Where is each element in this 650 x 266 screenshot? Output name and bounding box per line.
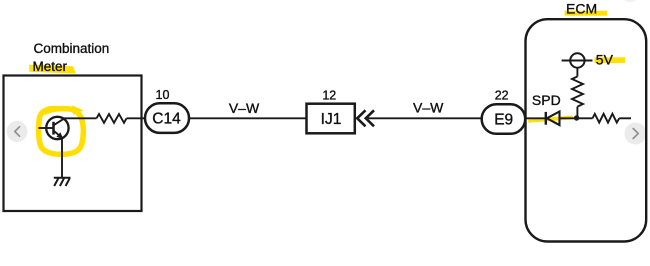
svg-text:22: 22: [495, 89, 509, 103]
connector chevrons at IJ1: [357, 110, 374, 126]
node junction dot: [574, 115, 579, 120]
diode D1 (SPD): [545, 112, 547, 125]
junction connector IJ1: [307, 104, 355, 134]
svg-text:C14: C14: [152, 111, 181, 128]
transistor emitter arrowhead: [56, 132, 63, 139]
ground: [54, 178, 71, 186]
highlight ring around transistor: [39, 108, 84, 154]
connector E9: [482, 104, 526, 134]
wire node to resistor R3: [577, 117, 593, 119]
highlight under Meter label: [29, 65, 76, 74]
wire resistor to node: [576, 107, 578, 119]
combination meter box: [4, 76, 142, 212]
nav prev button: [7, 121, 28, 142]
nav next button: [625, 123, 647, 145]
wire 5V to resistor: [576, 68, 578, 77]
svg-text:Meter: Meter: [33, 59, 68, 74]
wire after R3: [619, 117, 631, 119]
wire diode to node: [560, 117, 577, 119]
5V supply symbol: [570, 53, 584, 67]
svg-text:IJ1: IJ1: [321, 111, 342, 128]
highlight bar on SPD wire: [528, 115, 573, 122]
wire emitter to ground: [61, 138, 63, 178]
svg-text:Combination: Combination: [34, 41, 110, 56]
highlight bar after ECM label: [565, 11, 608, 16]
resistor R3 (horizontal): [593, 114, 620, 123]
svg-text:V–W: V–W: [413, 99, 444, 115]
svg-text:ECM: ECM: [566, 0, 597, 16]
svg-text:E9: E9: [494, 111, 513, 128]
svg-text:5V: 5V: [596, 52, 614, 68]
wire IJ1 to E9 (V-W): [368, 117, 482, 119]
partial grey button top-right: [619, 0, 642, 2]
resistor R2 (pull-up, vertical): [572, 77, 583, 107]
highlight ring arrowhead: [72, 105, 83, 115]
wire E9 to diode: [525, 117, 546, 119]
svg-text:V–W: V–W: [229, 100, 260, 116]
connector C14: [145, 103, 189, 133]
svg-text:12: 12: [322, 89, 336, 103]
svg-text:SPD: SPD: [532, 92, 561, 108]
svg-text:10: 10: [156, 88, 170, 102]
ECM box: [526, 19, 647, 241]
wire collector to resistor: [64, 117, 97, 119]
wire C14 to IJ1 (V-W): [189, 117, 307, 119]
resistor R1 (meter internal): [97, 114, 127, 123]
highlight bar at 5V label: [595, 57, 626, 63]
transistor Q1 (vehicle speed output): [39, 117, 69, 139]
wire resistor to C14: [127, 117, 146, 119]
